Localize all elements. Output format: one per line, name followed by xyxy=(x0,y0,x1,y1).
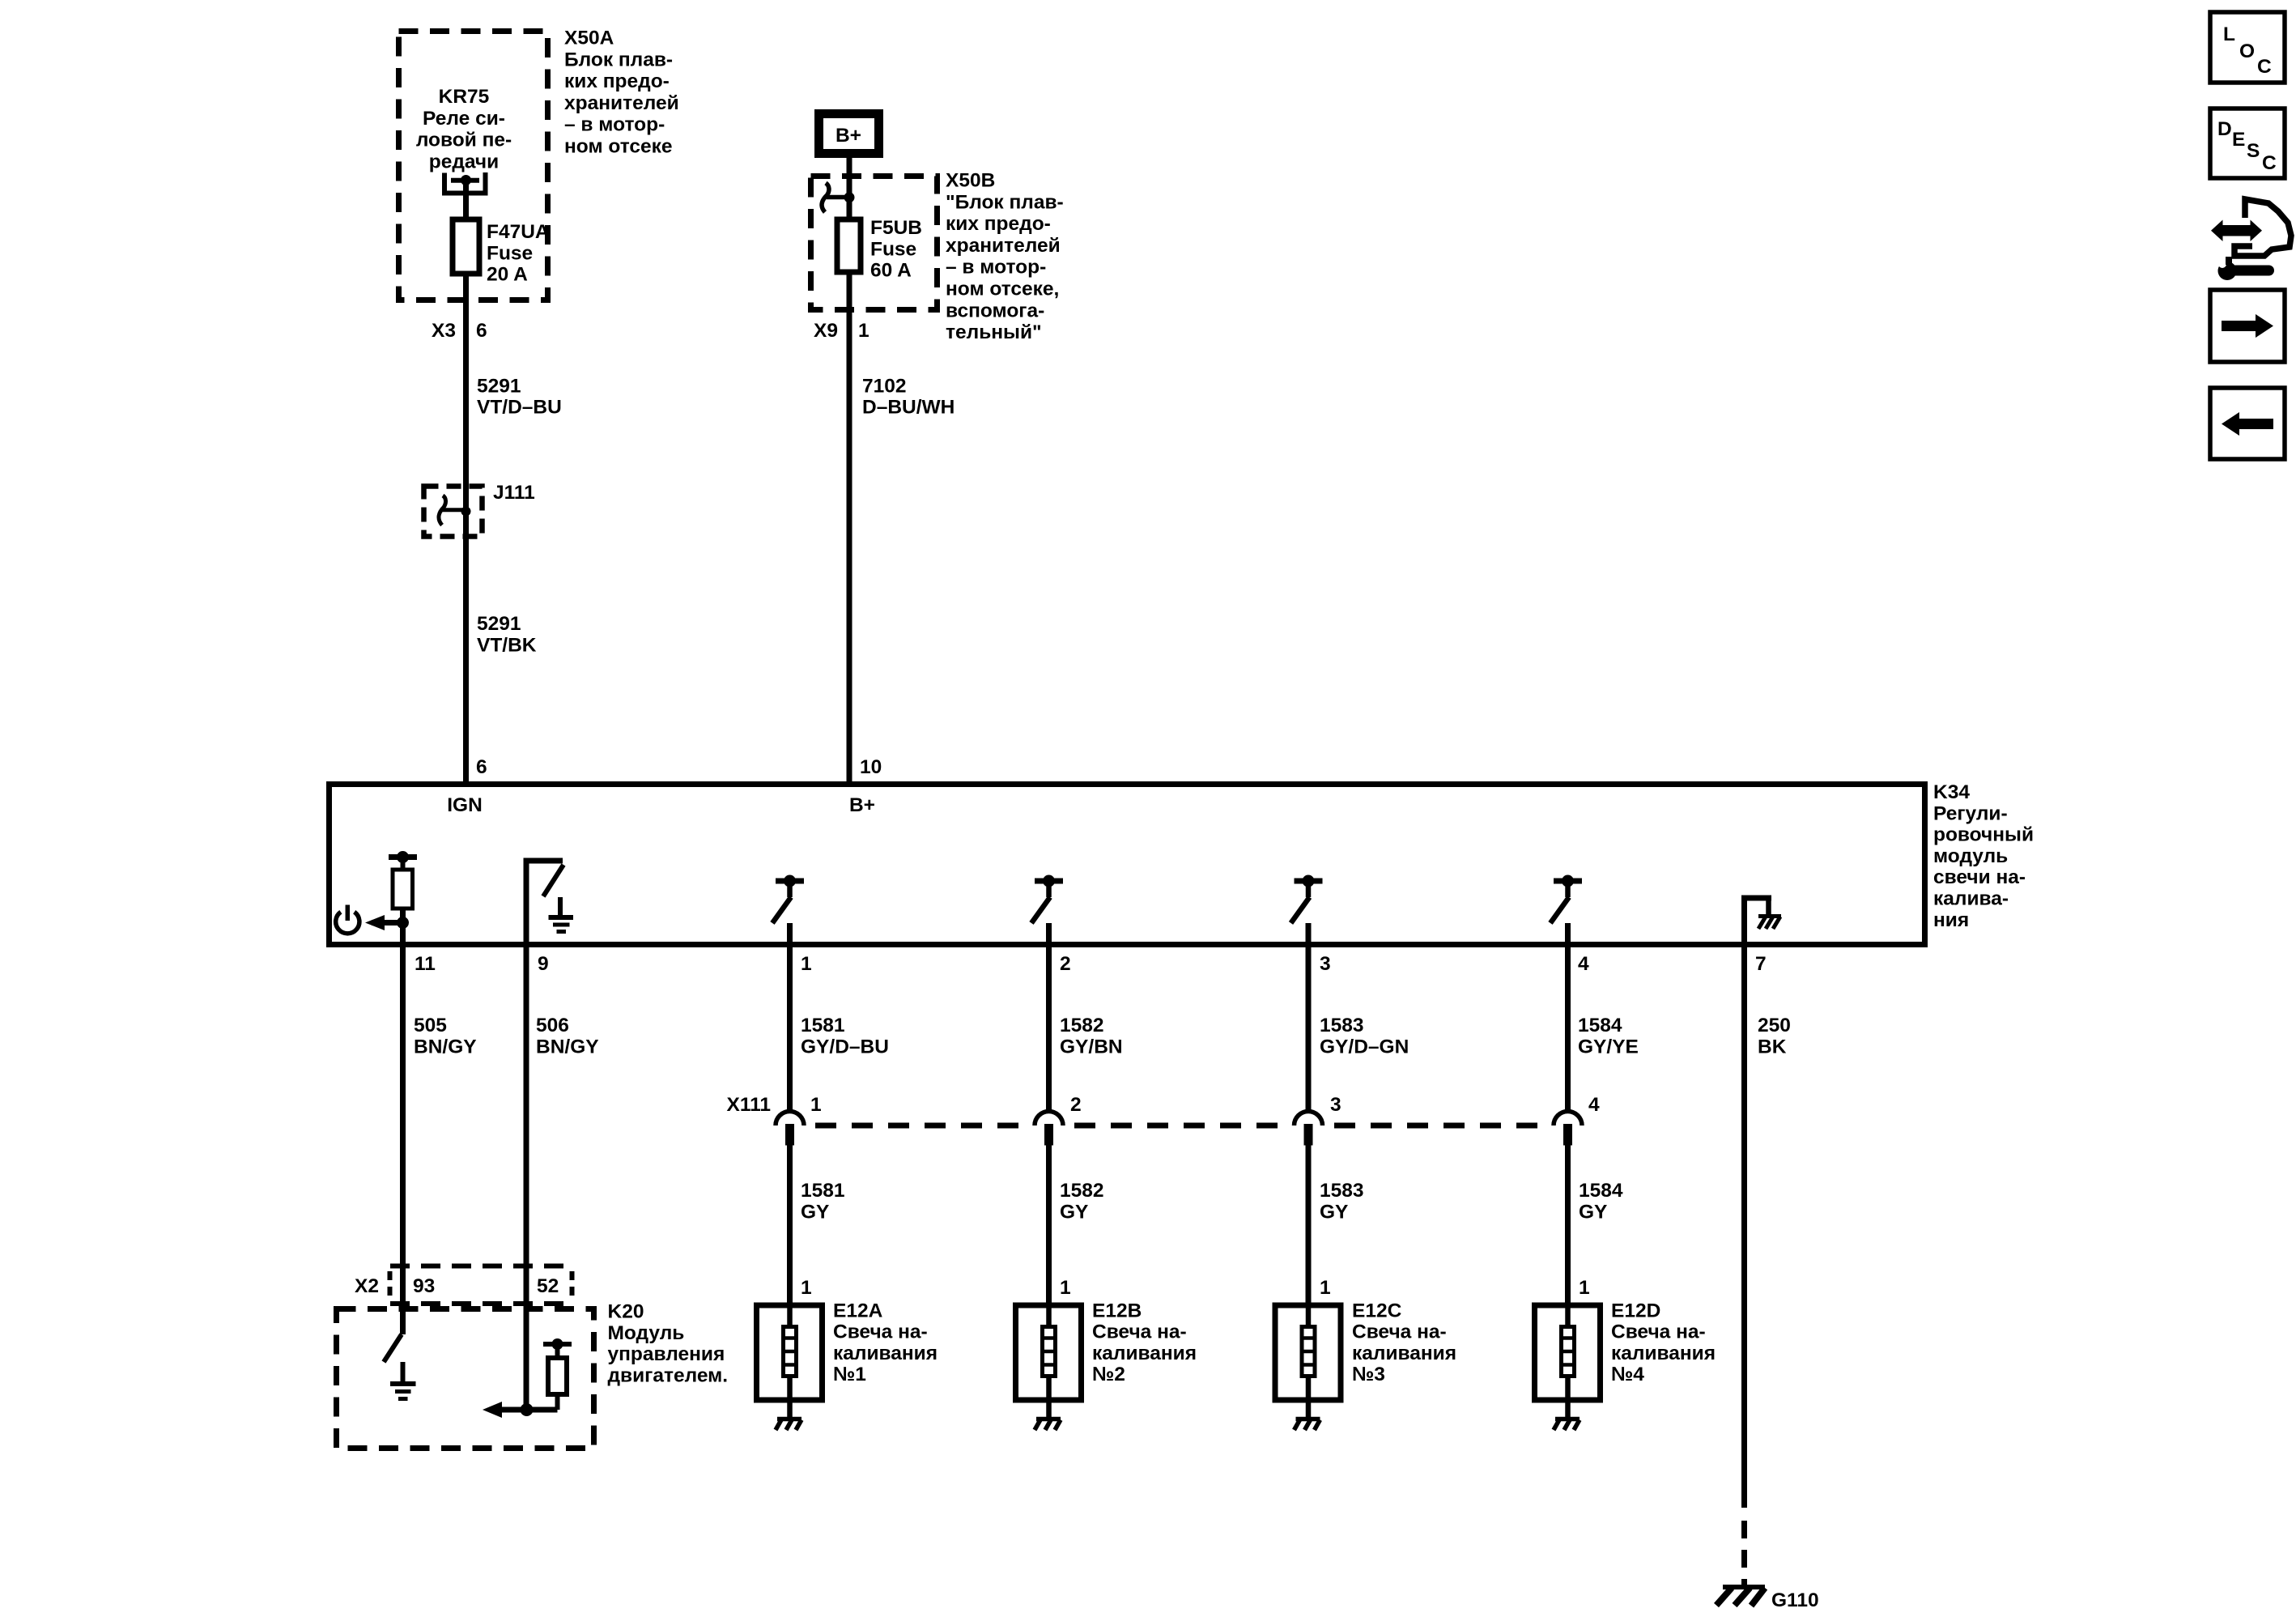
svg-text:тельный": тельный" xyxy=(946,321,1042,343)
svg-text:управления: управления xyxy=(608,1343,725,1365)
svg-text:7: 7 xyxy=(1755,953,1767,975)
svg-text:ния: ния xyxy=(1933,909,1969,931)
svg-text:ном отсеке,: ном отсеке, xyxy=(946,279,1059,300)
svg-text:X2: X2 xyxy=(355,1275,379,1297)
svg-text:1584: 1584 xyxy=(1579,1180,1623,1202)
svg-text:GY: GY xyxy=(1579,1201,1607,1223)
svg-text:каливания: каливания xyxy=(1611,1343,1716,1364)
svg-text:ном отсеке: ном отсеке xyxy=(564,136,673,158)
svg-text:BN/GY: BN/GY xyxy=(414,1036,477,1057)
svg-text:E12C: E12C xyxy=(1352,1300,1402,1321)
svg-text:1: 1 xyxy=(1060,1277,1071,1299)
svg-text:D: D xyxy=(2217,118,2232,140)
svg-text:B+: B+ xyxy=(835,125,861,147)
svg-text:двигателем.: двигателем. xyxy=(608,1364,729,1386)
svg-text:GY: GY xyxy=(1060,1201,1088,1223)
svg-text:10: 10 xyxy=(860,756,882,778)
svg-text:1582: 1582 xyxy=(1060,1180,1104,1202)
svg-text:X9: X9 xyxy=(814,320,838,342)
svg-text:1584: 1584 xyxy=(1578,1015,1622,1036)
svg-text:O: O xyxy=(2239,40,2255,62)
svg-text:BN/GY: BN/GY xyxy=(536,1036,599,1057)
svg-text:5291: 5291 xyxy=(477,375,521,397)
svg-text:11: 11 xyxy=(415,953,436,975)
svg-text:X50A: X50A xyxy=(564,28,614,49)
svg-text:– в мотор-: – в мотор- xyxy=(946,257,1046,279)
svg-text:C: C xyxy=(2257,56,2272,78)
svg-text:Регули-: Регули- xyxy=(1933,802,2008,824)
svg-text:E12A: E12A xyxy=(833,1300,883,1321)
svg-text:K20: K20 xyxy=(608,1301,644,1323)
svg-text:506: 506 xyxy=(536,1015,569,1036)
svg-text:Модуль: Модуль xyxy=(608,1322,685,1344)
svg-text:Реле си-: Реле си- xyxy=(423,108,505,130)
svg-text:Свеча на-: Свеча на- xyxy=(1611,1321,1706,1343)
svg-text:G110: G110 xyxy=(1771,1589,1819,1611)
svg-text:1581: 1581 xyxy=(801,1015,845,1036)
svg-text:C: C xyxy=(2262,152,2277,174)
svg-text:GY/D–GN: GY/D–GN xyxy=(1320,1036,1409,1057)
svg-text:1: 1 xyxy=(858,320,870,342)
svg-text:E: E xyxy=(2232,129,2245,151)
svg-text:IGN: IGN xyxy=(447,794,483,816)
svg-text:1583: 1583 xyxy=(1320,1015,1364,1036)
svg-text:F5UB: F5UB xyxy=(870,217,922,239)
svg-text:E12D: E12D xyxy=(1611,1300,1660,1321)
svg-text:№1: №1 xyxy=(833,1364,866,1385)
svg-text:7102: 7102 xyxy=(862,375,907,397)
svg-text:№4: №4 xyxy=(1611,1364,1644,1385)
svg-text:X111: X111 xyxy=(726,1094,771,1116)
svg-text:Fuse: Fuse xyxy=(870,238,916,260)
svg-text:каливания: каливания xyxy=(1352,1343,1456,1364)
svg-text:E12B: E12B xyxy=(1092,1300,1142,1321)
svg-text:ровочный: ровочный xyxy=(1933,824,2034,846)
svg-text:X50B: X50B xyxy=(946,170,995,192)
svg-text:J111: J111 xyxy=(493,482,535,504)
svg-text:ловой пе-: ловой пе- xyxy=(416,130,512,151)
svg-text:4: 4 xyxy=(1588,1094,1600,1116)
svg-text:3: 3 xyxy=(1320,953,1331,975)
svg-text:каливания: каливания xyxy=(1092,1343,1197,1364)
svg-text:250: 250 xyxy=(1758,1015,1791,1036)
svg-text:60 A: 60 A xyxy=(870,260,912,282)
svg-text:20 A: 20 A xyxy=(487,264,528,286)
svg-text:№2: №2 xyxy=(1092,1364,1125,1385)
svg-text:1581: 1581 xyxy=(801,1180,845,1202)
svg-text:K34: K34 xyxy=(1933,781,1970,803)
svg-text:D–BU/WH: D–BU/WH xyxy=(862,397,955,419)
svg-text:1: 1 xyxy=(1320,1277,1331,1299)
svg-text:F47UA: F47UA xyxy=(487,221,550,243)
svg-text:ких предо-: ких предо- xyxy=(946,213,1051,235)
svg-text:S: S xyxy=(2247,140,2260,162)
svg-text:6: 6 xyxy=(476,320,487,342)
svg-text:1: 1 xyxy=(801,1277,812,1299)
svg-text:BK: BK xyxy=(1758,1036,1787,1057)
svg-text:1: 1 xyxy=(810,1094,822,1116)
svg-text:4: 4 xyxy=(1578,953,1589,975)
svg-text:1: 1 xyxy=(801,953,812,975)
svg-text:GY: GY xyxy=(801,1201,829,1223)
svg-text:№3: №3 xyxy=(1352,1364,1385,1385)
svg-text:Блок плав-: Блок плав- xyxy=(564,49,673,70)
svg-text:модуль: модуль xyxy=(1933,845,2008,867)
svg-text:Fuse: Fuse xyxy=(487,242,533,264)
svg-text:1582: 1582 xyxy=(1060,1015,1104,1036)
svg-text:1: 1 xyxy=(1579,1277,1590,1299)
svg-text:505: 505 xyxy=(414,1015,447,1036)
svg-text:свечи на-: свечи на- xyxy=(1933,866,2026,888)
svg-text:"Блок плав-: "Блок плав- xyxy=(946,191,1064,213)
svg-text:GY: GY xyxy=(1320,1201,1348,1223)
svg-text:6: 6 xyxy=(476,756,487,778)
svg-text:3: 3 xyxy=(1330,1094,1341,1116)
svg-text:5291: 5291 xyxy=(477,613,521,635)
svg-text:52: 52 xyxy=(537,1275,559,1297)
svg-text:Свеча на-: Свеча на- xyxy=(1092,1321,1187,1343)
svg-text:2: 2 xyxy=(1070,1094,1082,1116)
svg-text:VT/BK: VT/BK xyxy=(477,634,537,656)
svg-text:KR75: KR75 xyxy=(439,86,490,108)
svg-text:GY/D–BU: GY/D–BU xyxy=(801,1036,889,1057)
svg-text:9: 9 xyxy=(538,953,549,975)
svg-text:калива-: калива- xyxy=(1933,888,2009,910)
svg-text:– в мотор-: – в мотор- xyxy=(564,114,665,136)
svg-text:Свеча на-: Свеча на- xyxy=(833,1321,928,1343)
svg-text:VT/D–BU: VT/D–BU xyxy=(477,397,562,419)
svg-text:93: 93 xyxy=(413,1275,435,1297)
svg-text:GY/YE: GY/YE xyxy=(1578,1036,1639,1057)
svg-text:каливания: каливания xyxy=(833,1343,938,1364)
svg-text:1583: 1583 xyxy=(1320,1180,1364,1202)
svg-text:хранителей: хранителей xyxy=(946,235,1061,257)
svg-text:хранителей: хранителей xyxy=(564,92,679,114)
svg-text:B+: B+ xyxy=(849,794,875,816)
svg-text:ких предо-: ких предо- xyxy=(564,70,670,92)
svg-text:X3: X3 xyxy=(432,320,456,342)
svg-text:редачи: редачи xyxy=(429,151,499,172)
svg-text:L: L xyxy=(2223,23,2235,45)
svg-text:2: 2 xyxy=(1060,953,1071,975)
svg-text:вспомога-: вспомога- xyxy=(946,300,1044,321)
svg-text:GY/BN: GY/BN xyxy=(1060,1036,1123,1057)
svg-text:Свеча на-: Свеча на- xyxy=(1352,1321,1447,1343)
